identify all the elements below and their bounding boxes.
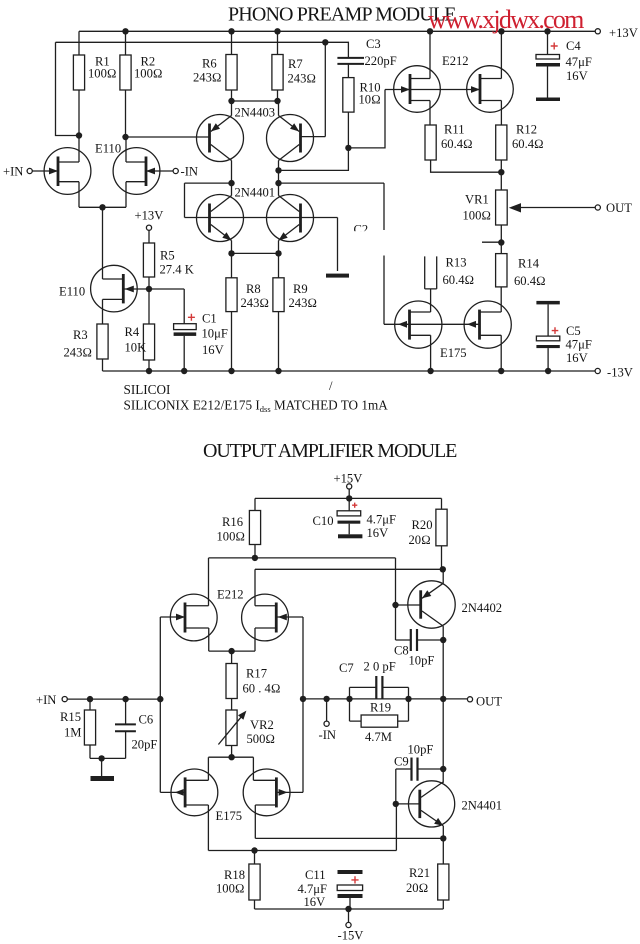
- junction C1 rail: [181, 368, 187, 374]
- wire collector bus to erased C2 upper: [279, 183, 385, 230]
- wire gate node to C1: [149, 289, 184, 324]
- wire R6 top stub: [231, 31, 233, 54]
- transistor Q2 base bar: [299, 124, 302, 153]
- resistor R21: [438, 864, 449, 900]
- capacitor C7 plates: [376, 676, 382, 699]
- resistor R19: [361, 715, 398, 727]
- svg-text:R16: R16: [222, 515, 243, 529]
- svg-text:C1: C1: [202, 312, 217, 326]
- svg-text:100Ω: 100Ω: [216, 882, 245, 896]
- capacitor C10 top wire: [348, 498, 350, 510]
- transistor Q2 collector diagonal: [279, 145, 300, 161]
- transistor Q4 2N4401 right circle: [267, 195, 314, 242]
- wire right drain bus to 2N4401 emitter: [255, 837, 443, 839]
- wire R16 bottom stub: [254, 545, 256, 558]
- wire main output vertical: [442, 640, 444, 783]
- svg-text:VR2: VR2: [250, 718, 274, 732]
- wire -15V stub: [348, 909, 350, 922]
- wire R19 right drop: [398, 699, 409, 721]
- junction R16 node: [252, 555, 258, 561]
- wire C8 right to collector node: [417, 639, 443, 641]
- wire R21 bottom stub: [442, 900, 444, 909]
- svg-text:R21: R21: [409, 866, 430, 880]
- svg-text:47μF: 47μF: [566, 55, 592, 69]
- transistor Q1 2N4403 left circle: [197, 115, 244, 162]
- svg-text:OUT: OUT: [606, 201, 632, 215]
- capacitor C11 common bar: [338, 870, 363, 874]
- TOP MODULE TEXT: [3, 4, 638, 415]
- transistor 2N4401 bottom emitter diagonal: [421, 810, 443, 826]
- capacitor C4 common bar: [536, 98, 560, 102]
- wire left drain bus to 2N4401 base: [208, 804, 396, 851]
- jfet E110 lower circle: [91, 265, 138, 312]
- wire E212 sources join: [209, 650, 255, 652]
- potentiometer VR1 wiper arrow: [509, 203, 521, 212]
- svg-text:C11: C11: [305, 868, 326, 882]
- svg-text:16V: 16V: [566, 351, 588, 365]
- svg-text:100Ω: 100Ω: [88, 67, 117, 81]
- transistor Q1 base bar: [208, 124, 211, 153]
- svg-text:C6: C6: [139, 713, 154, 727]
- capacitor C11 positive plate: [337, 885, 362, 891]
- wire erased C2 lower to E175 gates: [383, 256, 385, 325]
- svg-text:R17: R17: [246, 667, 267, 681]
- svg-text:1M: 1M: [64, 726, 82, 740]
- capacitor C10 common bar: [338, 534, 362, 538]
- jfet E175 bottom-right drain lead: [255, 805, 276, 838]
- capacitor C1 plus sign: [188, 314, 195, 321]
- jfet E175 left circle: [395, 301, 442, 348]
- svg-text:-IN: -IN: [319, 728, 336, 742]
- jfet E212 left drain lead: [410, 31, 430, 78]
- svg-text:R6: R6: [202, 57, 217, 71]
- junction R4 rail: [146, 368, 152, 374]
- jfet E212 bottom-left gate wire: [160, 616, 185, 618]
- svg-text:16V: 16V: [566, 69, 588, 83]
- wire R6-R7 bottom join: [232, 100, 278, 102]
- svg-text:4.7μF: 4.7μF: [298, 882, 328, 896]
- junction lower E110 gate node: [146, 286, 152, 292]
- potentiometer VR2 arrow line: [218, 717, 241, 744]
- svg-text:E110: E110: [59, 285, 85, 299]
- wire 2N4402 emitter drop: [442, 569, 444, 583]
- junction -15V rail: [345, 906, 351, 912]
- wire +15V rail: [255, 497, 442, 499]
- wire VR2 bottom stub: [231, 746, 233, 758]
- wire E175 tops join: [208, 756, 253, 758]
- wire ground stub: [101, 758, 103, 776]
- transistor Q3 collector diagonal: [211, 196, 232, 212]
- wire Q2 base to C3 node: [301, 42, 326, 136]
- terminal OUT bottom: [467, 697, 472, 702]
- resistor R13 open top body: [425, 256, 437, 289]
- terminal -13V: [595, 368, 600, 373]
- transistor Q4 emitter diagonal: [279, 225, 300, 241]
- jfet E212 right circle: [467, 66, 514, 113]
- svg-text:4.7M: 4.7M: [365, 730, 392, 744]
- svg-text:27.4 K: 27.4 K: [160, 263, 194, 277]
- wire R15 bottom to ground node: [90, 745, 126, 758]
- svg-text:60.4Ω: 60.4Ω: [441, 137, 473, 151]
- junction E212 right drain rail: [498, 28, 504, 34]
- junction R9 rail: [275, 368, 281, 374]
- capacitor C10 positive plate: [337, 511, 361, 516]
- wire terminal to R5: [148, 230, 150, 243]
- transistor Q2 emitter diagonal: [279, 116, 300, 132]
- jfet E175 bottom-right gate arrow: [279, 789, 288, 796]
- jfet E110 lower gate arrow: [125, 286, 134, 293]
- wire 2N4402 collector down: [442, 626, 444, 640]
- terminal -IN top: [173, 168, 178, 173]
- svg-text:E175: E175: [440, 346, 467, 360]
- svg-text:4.7μF: 4.7μF: [367, 513, 397, 527]
- capacitor C6 bottom wire: [125, 731, 127, 758]
- jfet E212 left channel bar: [409, 74, 412, 104]
- jfet E110 lower source lead: [103, 299, 124, 324]
- junction 2N4401 base: [393, 801, 399, 807]
- svg-text:47μF: 47μF: [566, 338, 592, 352]
- junction feedback output row: [300, 696, 306, 702]
- wire bus down to 2N4402 base: [395, 558, 397, 605]
- junction collector bus right upper: [275, 167, 281, 173]
- wire Q4 emitter down: [278, 241, 280, 254]
- transistor Q4 collector diagonal: [279, 196, 300, 212]
- jfet E175 right circle: [464, 301, 511, 348]
- wire emitter down to node: [442, 826, 444, 839]
- capacitor C10 bottom wire: [348, 524, 350, 535]
- wire R4 top stub: [148, 289, 150, 324]
- wire R19 left drop: [350, 699, 362, 721]
- svg-text:243Ω: 243Ω: [193, 71, 222, 85]
- capacitor C3: [337, 58, 364, 64]
- junction R8 rail: [228, 368, 234, 374]
- wire +IN row: [67, 698, 160, 700]
- jfet E212 right gate arrow: [471, 86, 480, 93]
- jfet E212 bottom-left source lead: [185, 628, 209, 651]
- svg-text:OUT: OUT: [476, 695, 502, 709]
- transistor 2N4402 base wire: [396, 604, 421, 606]
- wire +IN to gate: [32, 170, 58, 172]
- wire +13V top rail: [79, 30, 595, 32]
- junction output node: [440, 696, 446, 702]
- junction C9 right: [440, 766, 446, 772]
- svg-text:R20: R20: [412, 518, 433, 532]
- capacitor C9 plates: [412, 758, 418, 781]
- svg-text:PHONO PREAMP MODULE: PHONO PREAMP MODULE: [228, 4, 456, 26]
- wire C3 node to capacitor: [325, 42, 348, 57]
- junction C6 input: [122, 696, 128, 702]
- junction VR1 bottom: [498, 239, 504, 245]
- svg-text:VR1: VR1: [465, 193, 489, 207]
- wire R1 bottom to node: [78, 90, 80, 136]
- svg-text:243Ω: 243Ω: [241, 296, 270, 310]
- capacitor C4 plus sign: [551, 43, 558, 50]
- resistor R12: [496, 125, 507, 160]
- resistor R17: [226, 664, 237, 699]
- resistor R18: [249, 864, 260, 900]
- svg-text:220pF: 220pF: [365, 54, 397, 68]
- svg-text:+15V: +15V: [334, 472, 363, 486]
- wire R4 bottom to rail: [148, 360, 150, 371]
- wire node to E212 gates: [348, 90, 385, 148]
- transistor 2N4401 bottom base wire: [396, 803, 420, 805]
- resistor R7: [272, 55, 283, 91]
- junction E212 left drain rail: [427, 28, 433, 34]
- wire R3 bottom to rail: [102, 359, 104, 371]
- resistor R8: [226, 278, 237, 312]
- svg-text:20Ω: 20Ω: [409, 533, 431, 547]
- svg-text:R19: R19: [370, 701, 391, 715]
- transistor 2N4402 collector diagonal: [422, 611, 443, 626]
- capacitor C11 plus sign: [351, 876, 358, 883]
- transistor 2N4401 bottom collector diagonal: [421, 782, 443, 798]
- jfet E212 bottom-right gate arrow: [278, 614, 287, 621]
- jfet E212 bottom-right drain lead: [255, 605, 276, 607]
- svg-text:16V: 16V: [304, 895, 326, 909]
- terminal +13V top right: [595, 29, 600, 34]
- transistor Q4 base bar: [299, 204, 302, 233]
- jfet E175 bottom-right gate wire: [276, 791, 303, 793]
- junction +15V rail: [346, 495, 352, 501]
- jfet E175 bottom-left gate arrow: [175, 789, 184, 796]
- wire VR1 wiper from OUT: [521, 207, 595, 209]
- resistor R11: [425, 125, 436, 160]
- jfet E110 right channel bar: [145, 157, 148, 187]
- junction E175 right source rail: [498, 368, 504, 374]
- junction R1 E110 drain: [76, 132, 82, 138]
- capacitor C5 top wire: [547, 304, 549, 336]
- junction C7 R19 left: [346, 696, 352, 702]
- jfet E175 gate bus: [384, 323, 480, 325]
- wire tail down: [102, 207, 104, 279]
- svg-text:2N4401: 2N4401: [462, 799, 503, 813]
- wire R17 to VR2: [231, 699, 233, 711]
- wire R11 bottom to VR1 node: [431, 160, 502, 172]
- jfet E175 left channel bar: [408, 310, 411, 340]
- wire -15V bottom rail: [255, 908, 444, 910]
- svg-text:60.4Ω: 60.4Ω: [512, 137, 544, 151]
- svg-text:10Ω: 10Ω: [359, 93, 381, 107]
- junction R15 input: [87, 696, 93, 702]
- wire R8 top stub: [231, 253, 233, 277]
- capacitor C4 top wire: [547, 31, 549, 54]
- svg-text:E175: E175: [216, 809, 243, 823]
- terminal +IN top: [27, 168, 32, 173]
- capacitor C4 positive plate: [536, 55, 560, 60]
- terminal +13V mid: [146, 225, 151, 230]
- terminal +IN bottom: [62, 697, 67, 702]
- jfet E110 right gate arrow: [146, 168, 155, 175]
- svg-text:2 0 pF: 2 0 pF: [364, 660, 396, 674]
- transistor Q1 emitter arrow: [211, 123, 220, 131]
- jfet E110 lower drain lead: [103, 278, 124, 280]
- wire VR1 node to R14: [500, 243, 502, 254]
- resistor R4: [143, 324, 154, 360]
- wire output row: [303, 698, 467, 700]
- wire C9 right to main vertical: [418, 768, 444, 770]
- jfet E175 bottom-left drain lead: [185, 805, 208, 851]
- svg-text:60.4Ω: 60.4Ω: [514, 274, 546, 288]
- svg-text:R11: R11: [444, 123, 465, 137]
- svg-text:R13: R13: [446, 256, 467, 270]
- junction R7 emitter: [274, 98, 280, 104]
- jfet E212 left gate arrow: [401, 86, 410, 93]
- svg-text:16V: 16V: [367, 526, 389, 540]
- svg-text:www.xjdwx.com: www.xjdwx.com: [428, 5, 584, 34]
- potentiometer VR2 arrow head: [238, 711, 246, 720]
- resistor R10: [343, 78, 354, 113]
- svg-text:10μF: 10μF: [202, 327, 228, 341]
- svg-text:R8: R8: [246, 282, 261, 296]
- junction collector bus right lower: [275, 180, 281, 186]
- wire C7 right riser: [382, 687, 408, 699]
- svg-text:16V: 16V: [202, 343, 224, 357]
- junction R20 node: [440, 566, 446, 572]
- svg-text:R18: R18: [224, 868, 245, 882]
- svg-text:243Ω: 243Ω: [288, 72, 317, 86]
- transistor Q2 emitter arrow: [290, 123, 299, 131]
- wire -IN to gate: [146, 170, 173, 172]
- jfet E110 left channel bar: [57, 157, 60, 187]
- capacitor C4 bottom wire: [547, 67, 549, 98]
- transistor Q1 emitter diagonal: [211, 116, 232, 132]
- resistor R9: [273, 278, 284, 312]
- wire R16 top stub: [254, 498, 256, 510]
- potentiometer VR1 body: [496, 190, 508, 225]
- wire R21 top stub: [442, 838, 444, 864]
- wire node down and left to collector bus: [279, 148, 349, 171]
- jfet E110 left drain lead: [58, 136, 79, 163]
- svg-text:C10: C10: [313, 514, 334, 528]
- junction R2 rail: [122, 28, 128, 34]
- jfet E212 bottom-left channel bar: [184, 603, 187, 633]
- wire feedback vertical: [302, 617, 304, 792]
- transistor Q3 emitter diagonal: [211, 225, 232, 241]
- capacitor C8 plates: [411, 629, 417, 651]
- jfet E110 right source lead: [126, 182, 146, 208]
- jfet E175 left source lead: [410, 335, 431, 371]
- ground bar: [326, 274, 349, 278]
- transistor 2N4402 circle: [408, 581, 455, 628]
- junction E110 tail: [99, 204, 105, 210]
- transistor 2N4401 bottom emitter arrow: [434, 818, 443, 826]
- jfet E212 bottom-left drain lead: [185, 605, 209, 607]
- capacitor C10 plus sign: [352, 503, 357, 508]
- svg-text:C3: C3: [366, 37, 381, 51]
- jfet E175 right drain lead: [480, 311, 502, 313]
- capacitor C5 negative plate: [536, 345, 559, 348]
- capacitor C6 plates: [115, 724, 136, 731]
- wire input gates vertical: [159, 617, 161, 792]
- wire sources join: [79, 206, 126, 208]
- svg-text:100Ω: 100Ω: [134, 67, 163, 81]
- jfet E212 right channel bar: [479, 74, 482, 104]
- wire Q3 emitter down: [231, 241, 233, 254]
- svg-text:C4: C4: [566, 39, 581, 53]
- junction C4 rail: [544, 28, 550, 34]
- svg-text:OUTPUT AMPLIFIER MODULE: OUTPUT AMPLIFIER MODULE: [203, 440, 457, 462]
- wire R7 bottom stub: [277, 90, 279, 101]
- wire R9 top stub: [278, 253, 280, 277]
- wire left drop to R1 node: [56, 42, 80, 135]
- jfet E175 bottom-left gate wire: [160, 791, 185, 793]
- svg-text:20pF: 20pF: [132, 738, 158, 752]
- wire R8 bottom to rail: [231, 312, 233, 371]
- wire E212 gate bus: [385, 89, 480, 91]
- jfet E175 bottom-left channel bar: [184, 777, 187, 807]
- svg-text:E110: E110: [95, 142, 121, 156]
- terminal -15V: [346, 922, 351, 927]
- jfet E212 bottom-left gate arrow: [176, 614, 185, 621]
- BOTTOM MODULE TEXT: [36, 440, 502, 943]
- jfet E175 bottom-left circle: [171, 769, 218, 816]
- wire R18 top stub: [254, 851, 256, 865]
- svg-text:-15V: -15V: [338, 929, 364, 943]
- wire left E212 drain up: [208, 558, 210, 606]
- wire R9 bottom to rail: [278, 312, 280, 371]
- svg-text:+13V: +13V: [135, 209, 164, 223]
- svg-text:C8: C8: [394, 644, 409, 658]
- wire left collector branch: [185, 183, 232, 217]
- svg-text:10pF: 10pF: [409, 654, 435, 668]
- wire R2 bottom to node: [125, 90, 127, 137]
- svg-text:+IN: +IN: [36, 693, 56, 707]
- wire C7 left riser: [350, 687, 377, 699]
- junction C5 rail: [545, 368, 551, 374]
- jfet E175 left drain lead: [410, 311, 431, 313]
- potentiometer VR2 body: [226, 710, 237, 746]
- junction R6 emitter: [228, 98, 234, 104]
- transistor Q4 emitter arrow: [279, 232, 288, 240]
- wire R1 top stub: [78, 31, 80, 55]
- wire R20 node bus: [255, 568, 443, 570]
- jfet E110 right drain lead: [126, 137, 146, 162]
- jfet E212 bottom-left circle: [170, 594, 217, 641]
- capacitor C9 left wire: [396, 768, 412, 770]
- resistor R5: [143, 243, 154, 277]
- svg-text:100Ω: 100Ω: [463, 209, 492, 223]
- junction -IN node: [323, 696, 329, 702]
- svg-text:-IN: -IN: [181, 165, 198, 179]
- wire R10 bottom to node: [347, 112, 349, 148]
- junction VR2 bottom: [228, 754, 234, 760]
- jfet E175 bottom-right circle: [243, 769, 290, 816]
- jfet E212 bottom-right channel bar: [275, 603, 278, 633]
- junction emitters join right: [275, 250, 281, 256]
- capacitor C5 common bar: [536, 301, 559, 305]
- svg-text:R15: R15: [60, 710, 81, 724]
- wire R5 bottom to gate node: [148, 277, 150, 289]
- resistor R14: [496, 254, 507, 287]
- wire R18 bottom stub: [254, 900, 256, 909]
- svg-text:R12: R12: [516, 123, 537, 137]
- transistor 2N4401 bottom circle: [409, 781, 455, 827]
- terminal OUT top: [595, 205, 600, 210]
- jfet E212 right source lead: [480, 101, 501, 126]
- junction C7 R19 right: [405, 696, 411, 702]
- svg-text:R4: R4: [125, 325, 140, 339]
- resistor R3: [97, 324, 108, 359]
- wire R17 top stub: [231, 651, 233, 663]
- svg-text:20Ω: 20Ω: [406, 881, 428, 895]
- resistor R2: [120, 55, 131, 90]
- resistor R20: [436, 509, 447, 546]
- svg-text:500Ω: 500Ω: [247, 732, 276, 746]
- svg-text:SILICONIX E212/E175 Idss MA: SILICONIX E212/E175 Idss MATCHED TO 1mA: [124, 398, 389, 415]
- jfet E175 bottom-left source lead: [185, 757, 208, 780]
- svg-text:100Ω: 100Ω: [217, 530, 246, 544]
- jfet E175 right gate arrow: [467, 321, 476, 328]
